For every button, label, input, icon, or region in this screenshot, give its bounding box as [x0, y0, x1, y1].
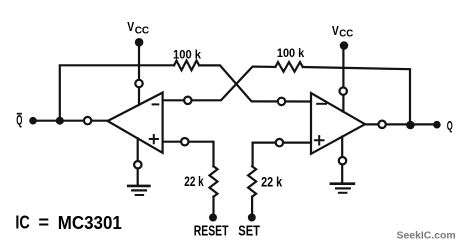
svg-text:SET: SET	[238, 222, 260, 239]
svg-text:=: =	[38, 211, 49, 232]
svg-text:100 k: 100 k	[173, 47, 201, 61]
svg-text:22 k: 22 k	[261, 174, 282, 190]
svg-text:MC3301: MC3301	[58, 212, 122, 233]
svg-text:22 k: 22 k	[184, 173, 204, 189]
svg-text:SeekIC.com: SeekIC.com	[397, 230, 456, 241]
svg-text:Q: Q	[447, 118, 453, 133]
svg-text:V: V	[127, 19, 134, 34]
svg-text:IC: IC	[15, 211, 29, 232]
svg-text:RESET: RESET	[194, 222, 229, 239]
svg-text:V: V	[332, 23, 339, 38]
svg-text:100 k: 100 k	[277, 46, 305, 60]
svg-text:CC: CC	[339, 28, 353, 40]
svg-text:Q: Q	[16, 113, 22, 128]
svg-text:CC: CC	[135, 24, 150, 36]
